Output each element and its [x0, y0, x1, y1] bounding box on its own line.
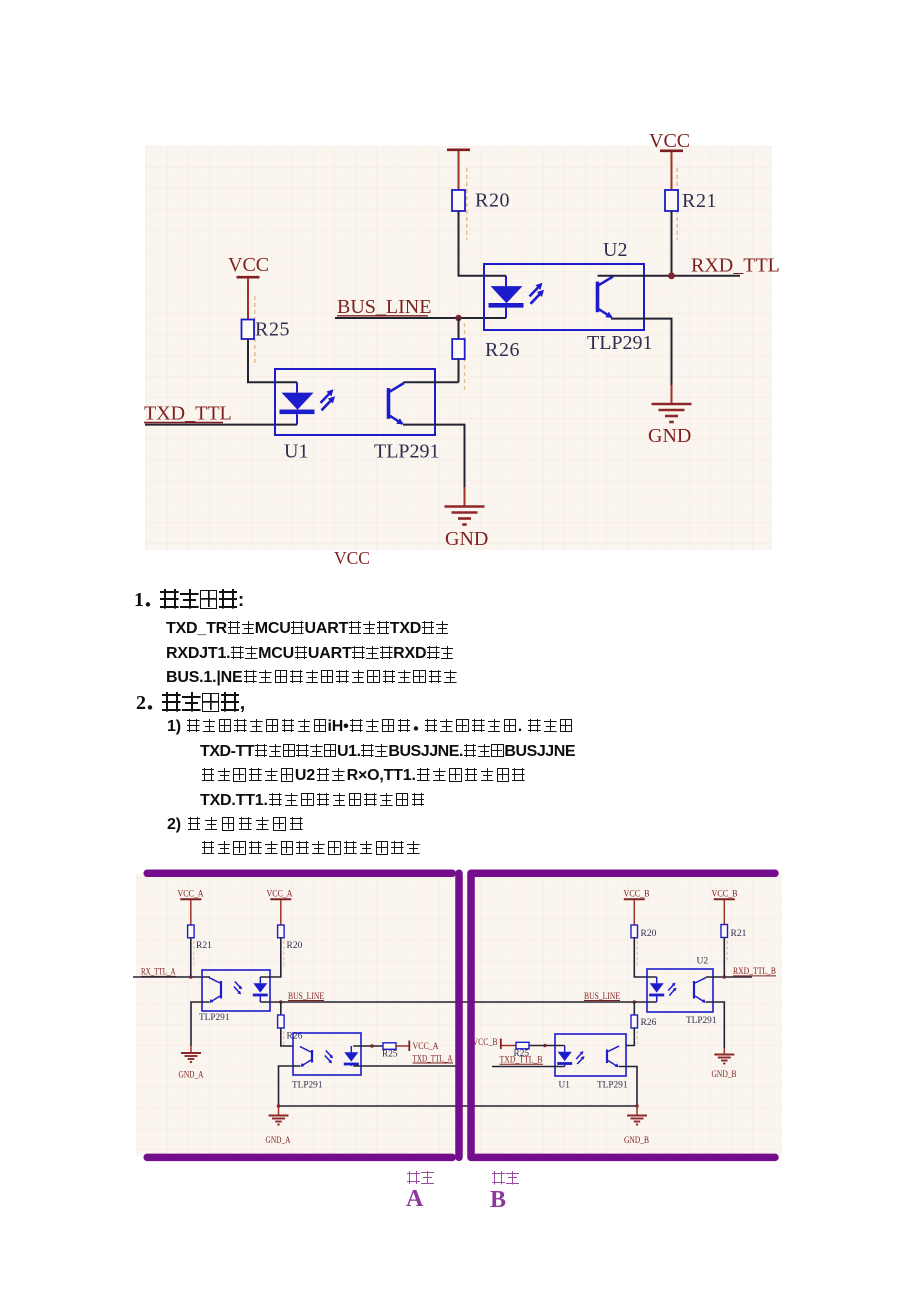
text line: via U2 to RXD — [200, 767, 526, 784]
part label TLP291 (A1) — [199, 1013, 230, 1023]
wire B1 emitter to GND_B — [706, 1002, 724, 1048]
wire A2 emitter to bottom — [279, 1066, 301, 1106]
svg-text:R20: R20 — [641, 929, 657, 939]
junction ground bus (B) — [635, 1104, 639, 1108]
part label TLP291 (U2) — [587, 332, 653, 354]
svg-text:TLP291: TLP291 — [587, 332, 653, 354]
value label R21 (B) — [731, 929, 747, 939]
wire to R26 (A) — [280, 1002, 282, 1015]
resistor R25 — [242, 320, 255, 340]
svg-text:BUS_LINE: BUS_LINE — [337, 296, 431, 318]
border device A top — [147, 870, 452, 878]
resistor R26 (B) — [631, 1015, 638, 1028]
ground GND_B (bottom) — [627, 1116, 647, 1125]
power VCC_B (left of R25) — [473, 1038, 501, 1049]
svg-text:TXD_TTL: TXD_TTL — [144, 403, 232, 425]
label B (device B) — [490, 1187, 506, 1213]
resistor R25 (B) — [516, 1042, 529, 1049]
ground pin GND_A (bottom) — [278, 1106, 280, 1115]
text line: TXD pin — [166, 620, 449, 637]
svg-text:TLP291: TLP291 — [686, 1016, 717, 1026]
wire R21-B down — [723, 938, 725, 978]
border divider (A right) — [455, 873, 463, 1157]
wire RXD_TTL_B — [706, 976, 752, 978]
label 设备 (device B) — [491, 1171, 520, 1189]
resistor R20 (B) — [631, 925, 638, 938]
schematic sheet background (top) — [145, 146, 772, 550]
value label R20 — [475, 190, 510, 212]
svg-text:VCC_B: VCC_B — [473, 1038, 498, 1048]
wire common ground bus — [279, 1105, 638, 1107]
designator U1 — [284, 441, 308, 463]
wire U2 collector / RXD_TTL — [598, 275, 741, 277]
svg-text:VCC: VCC — [228, 254, 269, 276]
net label VCC (left) — [228, 254, 269, 276]
orange guide at R26 — [464, 323, 466, 391]
svg-text:RXD_TTL: RXD_TTL — [691, 255, 780, 277]
resistor R21 — [665, 190, 678, 211]
value label R26 — [485, 339, 520, 361]
junction ground bus (A) — [277, 1104, 281, 1108]
border device B bottom — [472, 1154, 775, 1162]
wire R20 to U2 anode — [459, 211, 507, 276]
border device B top — [472, 870, 775, 878]
wire U1 collector to R26 — [404, 381, 459, 383]
net label BUS_LINE (A) — [288, 992, 324, 1002]
net label RXD_TTL — [691, 255, 780, 277]
svg-text:TLP291: TLP291 — [199, 1013, 230, 1023]
wire R20-A to A1 anode — [260, 938, 281, 977]
ground pin GND_B (bottom) — [636, 1106, 638, 1115]
wire R26-B to B2 collector — [626, 1028, 634, 1046]
text line: RXD pin — [166, 645, 454, 662]
text line: TXD.TT1 keep high — [200, 792, 426, 809]
orange guide at R20 (B) — [636, 941, 638, 967]
resistor R26 (A) — [278, 1015, 285, 1028]
designator U2 (B) — [697, 957, 709, 967]
net label TXD_TTL_B — [500, 1056, 544, 1066]
wire R20-B to B1 anode — [634, 938, 656, 977]
wire TXD_TTL_B — [492, 1066, 565, 1068]
svg-text:R20: R20 — [475, 190, 510, 212]
junction at R25 (B) — [543, 1044, 547, 1048]
orange guide at R25 — [254, 296, 256, 366]
junction at R25 (A) — [370, 1044, 374, 1048]
text line: 2) common ground — [167, 816, 305, 833]
part label TLP291 (A2) — [292, 1081, 323, 1091]
net label RXD_TTL_B — [733, 967, 776, 977]
power VCC_A (2nd) — [267, 890, 293, 926]
svg-text:TLP291: TLP291 — [374, 441, 440, 463]
label GND (under U2) — [648, 425, 691, 447]
wire R25 to U1 anode — [248, 339, 297, 382]
power VCC bar (left) — [237, 277, 260, 319]
part label TLP291 (U1) — [374, 441, 440, 463]
svg-text:R21: R21 — [731, 929, 747, 939]
junction BUS_LINE (B) — [633, 1000, 637, 1004]
junction BUS_LINE (A) — [279, 1000, 283, 1004]
wire VCC_B to R25 — [502, 1045, 517, 1047]
optocoupler U1 — [275, 369, 435, 435]
part label TLP291 (B2) — [597, 1081, 628, 1091]
svg-text:VCC_A: VCC_A — [178, 890, 204, 900]
junction RX_TTL_A — [189, 975, 193, 979]
net label BUS_LINE — [337, 296, 431, 318]
svg-text:TLP291: TLP291 — [292, 1081, 323, 1091]
svg-text:R25: R25 — [382, 1050, 398, 1060]
label 设备 (device A) — [406, 1171, 435, 1189]
resistor R21 (B) — [721, 925, 728, 938]
resistor R20 — [452, 190, 465, 211]
resistor R20 (A) — [278, 925, 285, 938]
svg-text:R20: R20 — [287, 941, 303, 951]
ground pin (under U2) — [671, 385, 673, 403]
orange guide at R21 — [676, 168, 678, 240]
power VCC_A (left) — [178, 890, 204, 926]
svg-text:R21: R21 — [682, 190, 717, 212]
junction RXD_TTL_B — [723, 975, 727, 979]
svg-text:VCC: VCC — [334, 548, 370, 568]
svg-text:B: B — [490, 1187, 506, 1213]
text line: BUS_LINE pin — [166, 669, 458, 686]
designator U2 — [603, 239, 627, 261]
wire BUS_LINE — [335, 317, 506, 319]
svg-text:U1: U1 — [284, 441, 308, 463]
ground pin GND_A (left) — [190, 1046, 192, 1053]
ground GND_A (left) — [181, 1053, 201, 1062]
svg-text:GND_A: GND_A — [179, 1071, 204, 1081]
svg-text:TLP291: TLP291 — [597, 1081, 628, 1091]
label GND_A (bottom) — [266, 1136, 291, 1146]
ground GND (under U1) — [445, 507, 485, 525]
label GND_A (left) — [179, 1071, 204, 1081]
svg-text:VCC_A: VCC_A — [267, 890, 293, 900]
svg-text:VCC: VCC — [649, 130, 690, 152]
label A (device A) — [406, 1186, 424, 1212]
wire U1 emitter to GND — [403, 425, 465, 487]
value label R25 (B) — [514, 1049, 530, 1059]
wire TXD_TTL_A — [353, 1065, 456, 1067]
svg-text:R21: R21 — [196, 941, 212, 951]
wire U2 emitter to GND — [611, 319, 672, 385]
svg-text:A: A — [406, 1186, 424, 1212]
value label R25 — [255, 319, 290, 341]
label GND_B (right) — [712, 1070, 737, 1080]
power VCC bar (top right) — [660, 151, 683, 191]
value label R21 (A) — [196, 941, 212, 951]
svg-text:U1: U1 — [559, 1081, 571, 1091]
wire R25-B to B2 anode — [529, 1045, 565, 1047]
ground pin (under U1) — [464, 487, 466, 506]
text line: two devices diagram below — [200, 840, 421, 857]
ground pin GND_B (right) — [723, 1048, 725, 1054]
wire A1 emitter to GND_A — [191, 1002, 209, 1046]
power VCC bar above R20 — [447, 150, 470, 191]
svg-text:R25: R25 — [255, 319, 290, 341]
value label R21 — [682, 190, 717, 212]
optocoupler U2 — [484, 264, 644, 330]
value label R26 (A) — [287, 1032, 303, 1042]
optocoupler A2 TLP291 — [293, 1033, 361, 1075]
designator U1 (B2) — [559, 1081, 571, 1091]
border device A bottom — [147, 1154, 452, 1162]
text section: principle heading — [136, 692, 245, 713]
svg-text:GND: GND — [648, 425, 691, 447]
power VCC_A (right) — [409, 1041, 438, 1053]
wire TXD_TTL to U1 cathode — [145, 424, 297, 426]
part label TLP291 (B1) — [686, 1016, 717, 1026]
power VCC_B (top right) — [712, 890, 738, 925]
svg-text:VCC_B: VCC_B — [624, 890, 650, 900]
svg-text:R26: R26 — [485, 339, 520, 361]
optocoupler A1 TLP291 — [202, 970, 270, 1011]
svg-text:GND_B: GND_B — [624, 1136, 649, 1146]
value label R26 (B) — [641, 1018, 657, 1028]
optocoupler B1 U2 TLP291 — [647, 969, 713, 1012]
svg-text:U2: U2 — [697, 957, 709, 967]
wire R21-A down — [190, 938, 192, 977]
net label TXD_TTL — [144, 403, 232, 425]
svg-text:VCC_A: VCC_A — [413, 1042, 439, 1052]
resistor R25 (A) — [383, 1043, 396, 1050]
ground GND_B (right) — [714, 1055, 734, 1064]
stray net label VCC (bottom of sheet) — [334, 548, 370, 568]
ground GND (under U2) — [652, 404, 692, 422]
net label RX_TTL_A — [141, 968, 177, 978]
text section: pin description heading — [134, 589, 244, 610]
resistor R21 (A) — [188, 925, 195, 938]
wire R21 to RXD junction — [671, 211, 673, 276]
value label R20 (B) — [641, 929, 657, 939]
wire R26-A to A2 collector — [281, 1028, 293, 1046]
wire RX_TTL_A — [133, 976, 210, 978]
wire BUS_LINE (bus) — [260, 1001, 656, 1003]
svg-text:GND: GND — [445, 528, 488, 550]
wire R25-A to VCC — [396, 1045, 409, 1047]
label GND (under U1) — [445, 528, 488, 550]
value label R20 (A) — [287, 941, 303, 951]
border divider (B left) — [467, 873, 475, 1157]
label GND_B (bottom) — [624, 1136, 649, 1146]
wire B2 emitter to bottom — [619, 1067, 637, 1107]
resistor R26 — [452, 339, 465, 359]
net label BUS_LINE (B) — [584, 992, 620, 1002]
svg-text:GND_B: GND_B — [712, 1070, 737, 1080]
wire to R26 (B) — [633, 1002, 635, 1015]
orange guide at R20 — [466, 168, 468, 240]
svg-text:GND_A: GND_A — [266, 1136, 291, 1146]
power VCC_B (top left) — [624, 890, 650, 926]
svg-text:U2: U2 — [603, 239, 627, 261]
svg-text:VCC_B: VCC_B — [712, 890, 738, 900]
junction BUS_LINE/R26 — [455, 315, 461, 321]
orange guide at R20 (A) — [283, 941, 285, 967]
orange guide at R26 (A) — [283, 1031, 285, 1045]
wire R26 to U1 collector — [458, 359, 460, 382]
orange guide at R21 (B) — [726, 941, 728, 963]
net label TXD_TTL_A — [413, 1055, 454, 1065]
text line: 1) half duplex — [167, 718, 574, 735]
wire A2 anode to R25 — [353, 1045, 383, 1047]
schematic sheet background (bottom) — [136, 874, 782, 1156]
orange guide at R26 (B) — [636, 1031, 638, 1044]
net label VCC (top right) — [649, 130, 690, 152]
text line: TXD-TT via U1 — [200, 743, 575, 760]
wire junction to R26 — [458, 318, 460, 339]
optocoupler B2 U1 TLP291 — [555, 1034, 626, 1076]
junction RXD_TTL — [668, 272, 675, 279]
svg-text:R26: R26 — [641, 1018, 657, 1028]
value label R25 (A) — [382, 1050, 398, 1060]
ground GND_A (bottom) — [269, 1116, 289, 1125]
orange guide at R21 (A) — [193, 941, 195, 967]
